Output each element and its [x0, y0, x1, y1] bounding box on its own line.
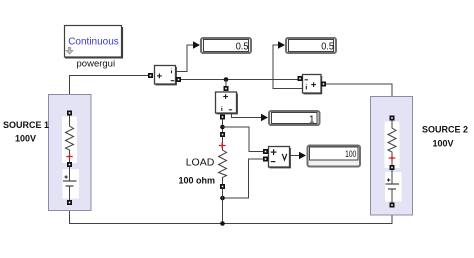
- wire I2 i-output to display D2: [273, 45, 302, 89]
- source 1 group box: [49, 95, 92, 211]
- svg-text:powergui: powergui: [77, 59, 116, 70]
- port R1 top: [67, 111, 72, 116]
- svg-text:0.5: 0.5: [321, 41, 334, 52]
- svg-text:100: 100: [345, 149, 356, 159]
- polarity mark + (red) on R2: [389, 155, 395, 161]
- wire load bottom to J3: [222, 189, 224, 198]
- port I2 +: [321, 82, 326, 87]
- port V1 +: [263, 149, 268, 154]
- node junction J1: [224, 77, 229, 82]
- wire bottom rail: [70, 205, 393, 224]
- wire J3 to voltmeter - input: [223, 159, 264, 198]
- display D2 value 0.5: [286, 38, 336, 53]
- svg-text:100V: 100V: [432, 139, 453, 149]
- svg-text:100V: 100V: [15, 134, 36, 144]
- polarity mark + (red) on RL: [219, 142, 226, 149]
- svg-text:SOURCE 2: SOURCE 2: [422, 125, 468, 135]
- display D3 value 1: [269, 111, 320, 126]
- svg-text:1: 1: [309, 115, 315, 126]
- node junction J3: [220, 196, 225, 201]
- current measurement I3: [216, 92, 238, 114]
- load resistor RL: [219, 137, 227, 185]
- svg-text:0.5: 0.5: [236, 41, 249, 52]
- dc source B1 (source 1 battery): [63, 167, 80, 201]
- polarity mark + (red) on R1: [66, 153, 72, 159]
- resistor R1 (source 1 internal): [62, 115, 77, 163]
- port RL bottom: [220, 184, 225, 189]
- powergui block U_powergui: [65, 26, 123, 58]
- wire J2 to voltmeter + input: [223, 127, 264, 152]
- wire source1 top to I1 + input: [70, 76, 150, 114]
- port B1 bottom: [67, 200, 72, 205]
- wire I1 i-output to display D1: [176, 45, 194, 72]
- port RL top: [220, 132, 225, 137]
- port R2/B2 mid: [390, 165, 395, 170]
- node junction J2: [220, 125, 225, 130]
- svg-text:SOURCE 1: SOURCE 1: [3, 120, 49, 130]
- port I2 -: [298, 76, 303, 81]
- wire I2 + to source2 top: [326, 84, 393, 115]
- port R2 top: [390, 116, 395, 121]
- svg-text:LOAD: LOAD: [186, 157, 215, 169]
- wire J1 down to I3 + input: [225, 80, 227, 88]
- port I1 +: [148, 73, 153, 78]
- port B2 bottom: [390, 203, 395, 208]
- display D1 value 0.5: [201, 38, 251, 53]
- wire J3 down to bottom rail: [222, 198, 224, 224]
- wire main bus I1- to I2-: [181, 79, 299, 81]
- wire I3 i-output to display D3: [232, 114, 262, 118]
- resistor R2 (source 2 internal): [385, 120, 400, 168]
- current measurement I1: [155, 66, 177, 85]
- dc source B2 (source 2 battery): [385, 170, 402, 203]
- svg-text:100 ohm: 100 ohm: [178, 176, 215, 186]
- svg-text:Continuous: Continuous: [68, 36, 119, 47]
- voltage measurement V1: [269, 147, 291, 168]
- port R1/B1 mid: [67, 162, 72, 167]
- wire voltmeter output to display D4: [290, 155, 300, 157]
- display D4 value 100: [308, 146, 361, 167]
- wire I3 - to load top: [222, 120, 224, 133]
- port I1 -: [176, 77, 181, 82]
- node junction J4: [220, 221, 225, 226]
- port V1 -: [263, 157, 268, 162]
- current measurement I2: [303, 75, 322, 94]
- port I3 +: [224, 86, 229, 91]
- source 2 group box: [371, 97, 413, 216]
- port I3 -: [220, 115, 225, 120]
